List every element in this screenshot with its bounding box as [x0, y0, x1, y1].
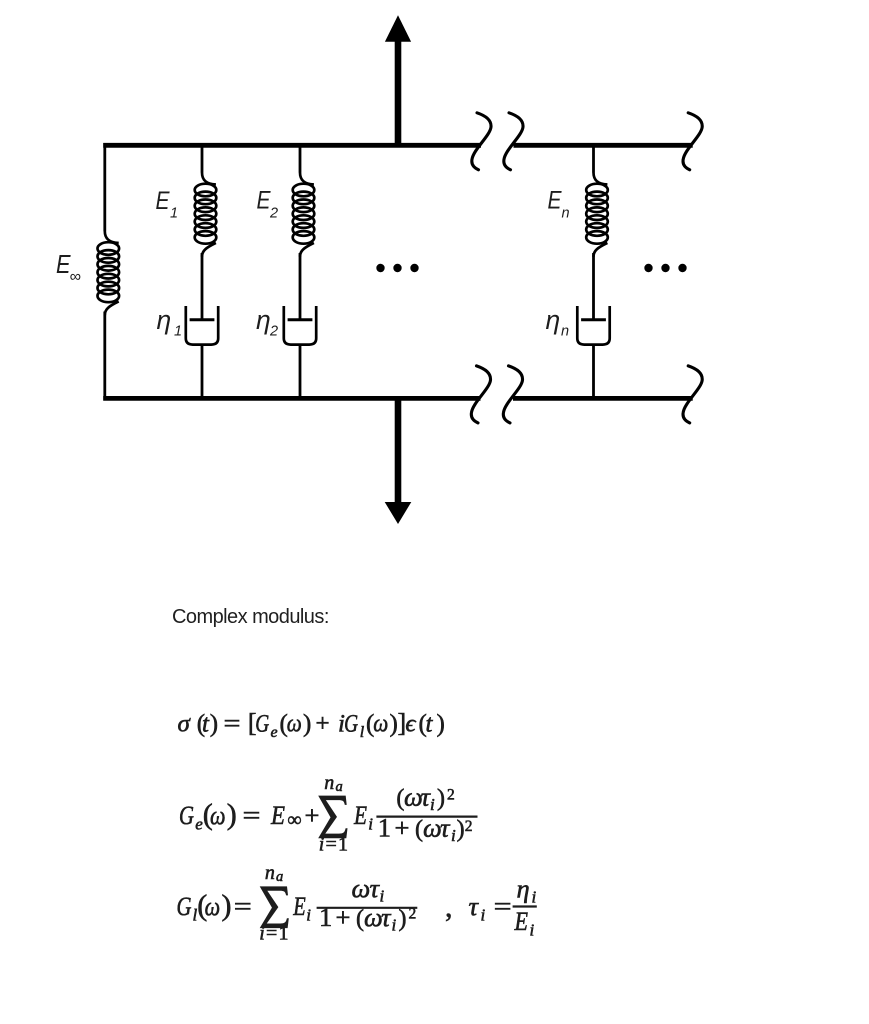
wire branch 1 middle (piston rod): [201, 253, 204, 320]
svg-text:τ: τ: [381, 902, 392, 932]
svg-text:n: n: [324, 772, 334, 794]
svg-text:∞: ∞: [70, 269, 81, 286]
svg-text:): ): [303, 711, 311, 738]
svg-text:σ: σ: [178, 711, 192, 738]
wire top bus left segment: [103, 143, 481, 148]
svg-text:i: i: [530, 920, 535, 939]
equation 2 sum upper limit n_a: [324, 772, 342, 795]
svg-text:i: i: [319, 834, 325, 856]
svg-text:=: =: [494, 891, 512, 921]
wire left branch lower: [103, 312, 106, 401]
svg-text:): ): [222, 889, 232, 922]
wire branch 1 lower: [201, 345, 204, 400]
svg-text:a: a: [336, 779, 343, 795]
label label E_inf: [56, 249, 81, 286]
wire branch 2 upper: [299, 143, 302, 173]
svg-text:τ: τ: [440, 813, 451, 843]
svg-text:E: E: [292, 891, 305, 921]
svg-text:2: 2: [447, 786, 455, 803]
svg-text:Complex modulus:: Complex modulus:: [172, 606, 329, 628]
svg-text:(: (: [356, 906, 364, 932]
svg-text:n: n: [562, 206, 570, 222]
svg-text:2: 2: [409, 906, 417, 923]
svg-text:+: +: [336, 902, 351, 932]
svg-text:η: η: [546, 305, 561, 335]
svg-text:=: =: [234, 891, 252, 921]
svg-text:t: t: [202, 711, 210, 738]
dashpot eta_n: [577, 306, 609, 345]
svg-text:n: n: [561, 324, 569, 340]
svg-text:(: (: [415, 817, 423, 843]
svg-text:i: i: [430, 795, 435, 814]
wire branch 2 middle (piston rod): [299, 253, 302, 320]
svg-text:E: E: [156, 187, 170, 215]
wire branch n upper: [592, 143, 595, 173]
equation 2 fraction numerator (wt_i)^2: [396, 782, 454, 815]
svg-text:i: i: [392, 916, 397, 935]
equation 2 lhs: Ge(w) = Einf +: [179, 798, 319, 834]
svg-text:ω: ω: [423, 813, 442, 843]
svg-text:=: =: [266, 923, 277, 945]
equation 3 E_i factor: [292, 891, 311, 924]
svg-text:G: G: [177, 891, 192, 921]
equation 3 lhs: Gl(w) =: [177, 889, 252, 925]
ellipsis dots right of branch n: [644, 264, 686, 272]
svg-text:1: 1: [170, 206, 178, 222]
svg-text:2: 2: [269, 324, 278, 340]
wire branch 1 upper: [201, 143, 204, 173]
bottom load arrow: [385, 398, 412, 524]
equation 2 E_i factor: [353, 800, 373, 833]
svg-text:e: e: [271, 724, 278, 741]
svg-text:G: G: [344, 711, 358, 738]
svg-text:E: E: [257, 187, 271, 215]
svg-text:+: +: [305, 800, 320, 830]
spring E_n coil: [586, 173, 608, 257]
equation 3 sum lower limit i=1: [259, 923, 288, 945]
wire bottom bus left segment: [103, 396, 480, 401]
equation 1: sigma(t) = [Ge(w)+iGl(w)]eps(t): [178, 709, 445, 742]
svg-text:,: ,: [445, 891, 453, 924]
svg-text:=: =: [224, 711, 241, 738]
equation 3 tau_i =: [469, 891, 512, 925]
equation 2 sum lower limit i=1: [319, 834, 348, 856]
svg-text:i: i: [306, 905, 311, 924]
svg-text:ω: ω: [205, 891, 221, 921]
svg-text:ω: ω: [352, 873, 371, 903]
equation 2 summation sigma: [318, 796, 347, 839]
svg-text:1: 1: [338, 834, 348, 856]
svg-text:i: i: [532, 888, 537, 907]
wire top bus right segment: [514, 143, 693, 148]
svg-text:ω: ω: [287, 711, 302, 738]
break mark bottom bus 2: [503, 366, 522, 423]
svg-text:): ): [457, 817, 465, 843]
svg-text:): ): [399, 906, 407, 932]
equation 3 sum upper limit n_a: [265, 862, 283, 885]
ellipsis dots between branch 2 and branch n: [376, 264, 418, 272]
wire branch 2 lower: [299, 345, 302, 400]
svg-text:η: η: [517, 874, 530, 904]
label label E_2: [257, 187, 279, 222]
equation 3 fraction bar: [317, 907, 418, 909]
svg-text:G: G: [255, 711, 269, 738]
spring E_2 coil: [293, 173, 315, 257]
svg-text:1: 1: [319, 902, 332, 932]
svg-text:G: G: [179, 800, 194, 830]
label label eta_n: [546, 305, 570, 340]
equation 3 fraction numerator eta_i: [517, 874, 537, 907]
equation 3 fraction denominator 1+(wt_i)^2: [319, 902, 416, 935]
label label E_n: [548, 187, 570, 222]
svg-text:ω: ω: [373, 711, 388, 738]
svg-text:E: E: [514, 906, 528, 936]
svg-text:2: 2: [465, 818, 473, 835]
svg-text:): ): [210, 711, 218, 738]
svg-text:τ: τ: [469, 891, 480, 921]
label label eta_2: [256, 305, 278, 340]
spring E_inf coil: [98, 231, 120, 315]
svg-text:E: E: [270, 800, 285, 830]
svg-text:ω: ω: [364, 902, 383, 932]
svg-text:i: i: [368, 814, 373, 833]
break mark bottom bus right end: [683, 366, 702, 423]
break mark top bus right end: [683, 113, 702, 170]
svg-text:i: i: [451, 826, 456, 845]
equation 3 fraction denominator E_i: [514, 906, 535, 939]
top load arrow: [385, 15, 411, 145]
svg-text:∞: ∞: [287, 809, 301, 831]
equation 2 fraction denominator 1+(wt_i)^2: [378, 813, 473, 846]
svg-text:η: η: [256, 305, 271, 335]
break mark top bus 1: [472, 113, 491, 170]
svg-text:+: +: [395, 813, 410, 843]
wire bottom bus right segment: [513, 396, 693, 401]
svg-text:1: 1: [378, 813, 391, 843]
svg-text:): ): [437, 786, 445, 812]
break mark top bus 2: [504, 113, 523, 170]
break mark bottom bus 1: [471, 366, 490, 423]
svg-text:a: a: [276, 869, 283, 885]
svg-text:ω: ω: [210, 800, 226, 830]
svg-text:l: l: [360, 724, 365, 741]
wire branch n middle (piston rod): [592, 253, 595, 320]
wire branch n lower: [592, 345, 595, 400]
dashpot eta_2: [284, 306, 316, 345]
spring E_1 coil: [195, 173, 217, 257]
svg-text:=: =: [243, 800, 261, 830]
svg-text:η: η: [157, 305, 172, 335]
svg-text:1: 1: [279, 923, 289, 945]
svg-text:E: E: [353, 800, 367, 830]
svg-text:+: +: [316, 711, 330, 738]
svg-text:n: n: [265, 862, 275, 884]
svg-text:): ): [227, 798, 237, 831]
label label E_1: [156, 187, 179, 222]
svg-text:=: =: [326, 834, 337, 856]
equation 3 fraction bar eta_i over E_i: [513, 905, 537, 907]
svg-text:ϵ: ϵ: [405, 711, 416, 738]
label label eta_1: [157, 305, 183, 340]
svg-text:2: 2: [269, 206, 278, 222]
svg-text:): ): [437, 711, 445, 738]
svg-text:t: t: [426, 711, 434, 738]
equation 3 fraction numerator wt_i: [352, 873, 385, 906]
svg-text:i: i: [481, 906, 486, 925]
equation 2 fraction bar: [376, 815, 477, 817]
wire left branch upper: [103, 143, 106, 231]
svg-text:i: i: [259, 923, 265, 945]
svg-text:1: 1: [174, 324, 182, 340]
svg-text:E: E: [548, 187, 562, 215]
equation 3 summation sigma: [260, 886, 289, 928]
dashpot eta_1: [186, 306, 218, 345]
